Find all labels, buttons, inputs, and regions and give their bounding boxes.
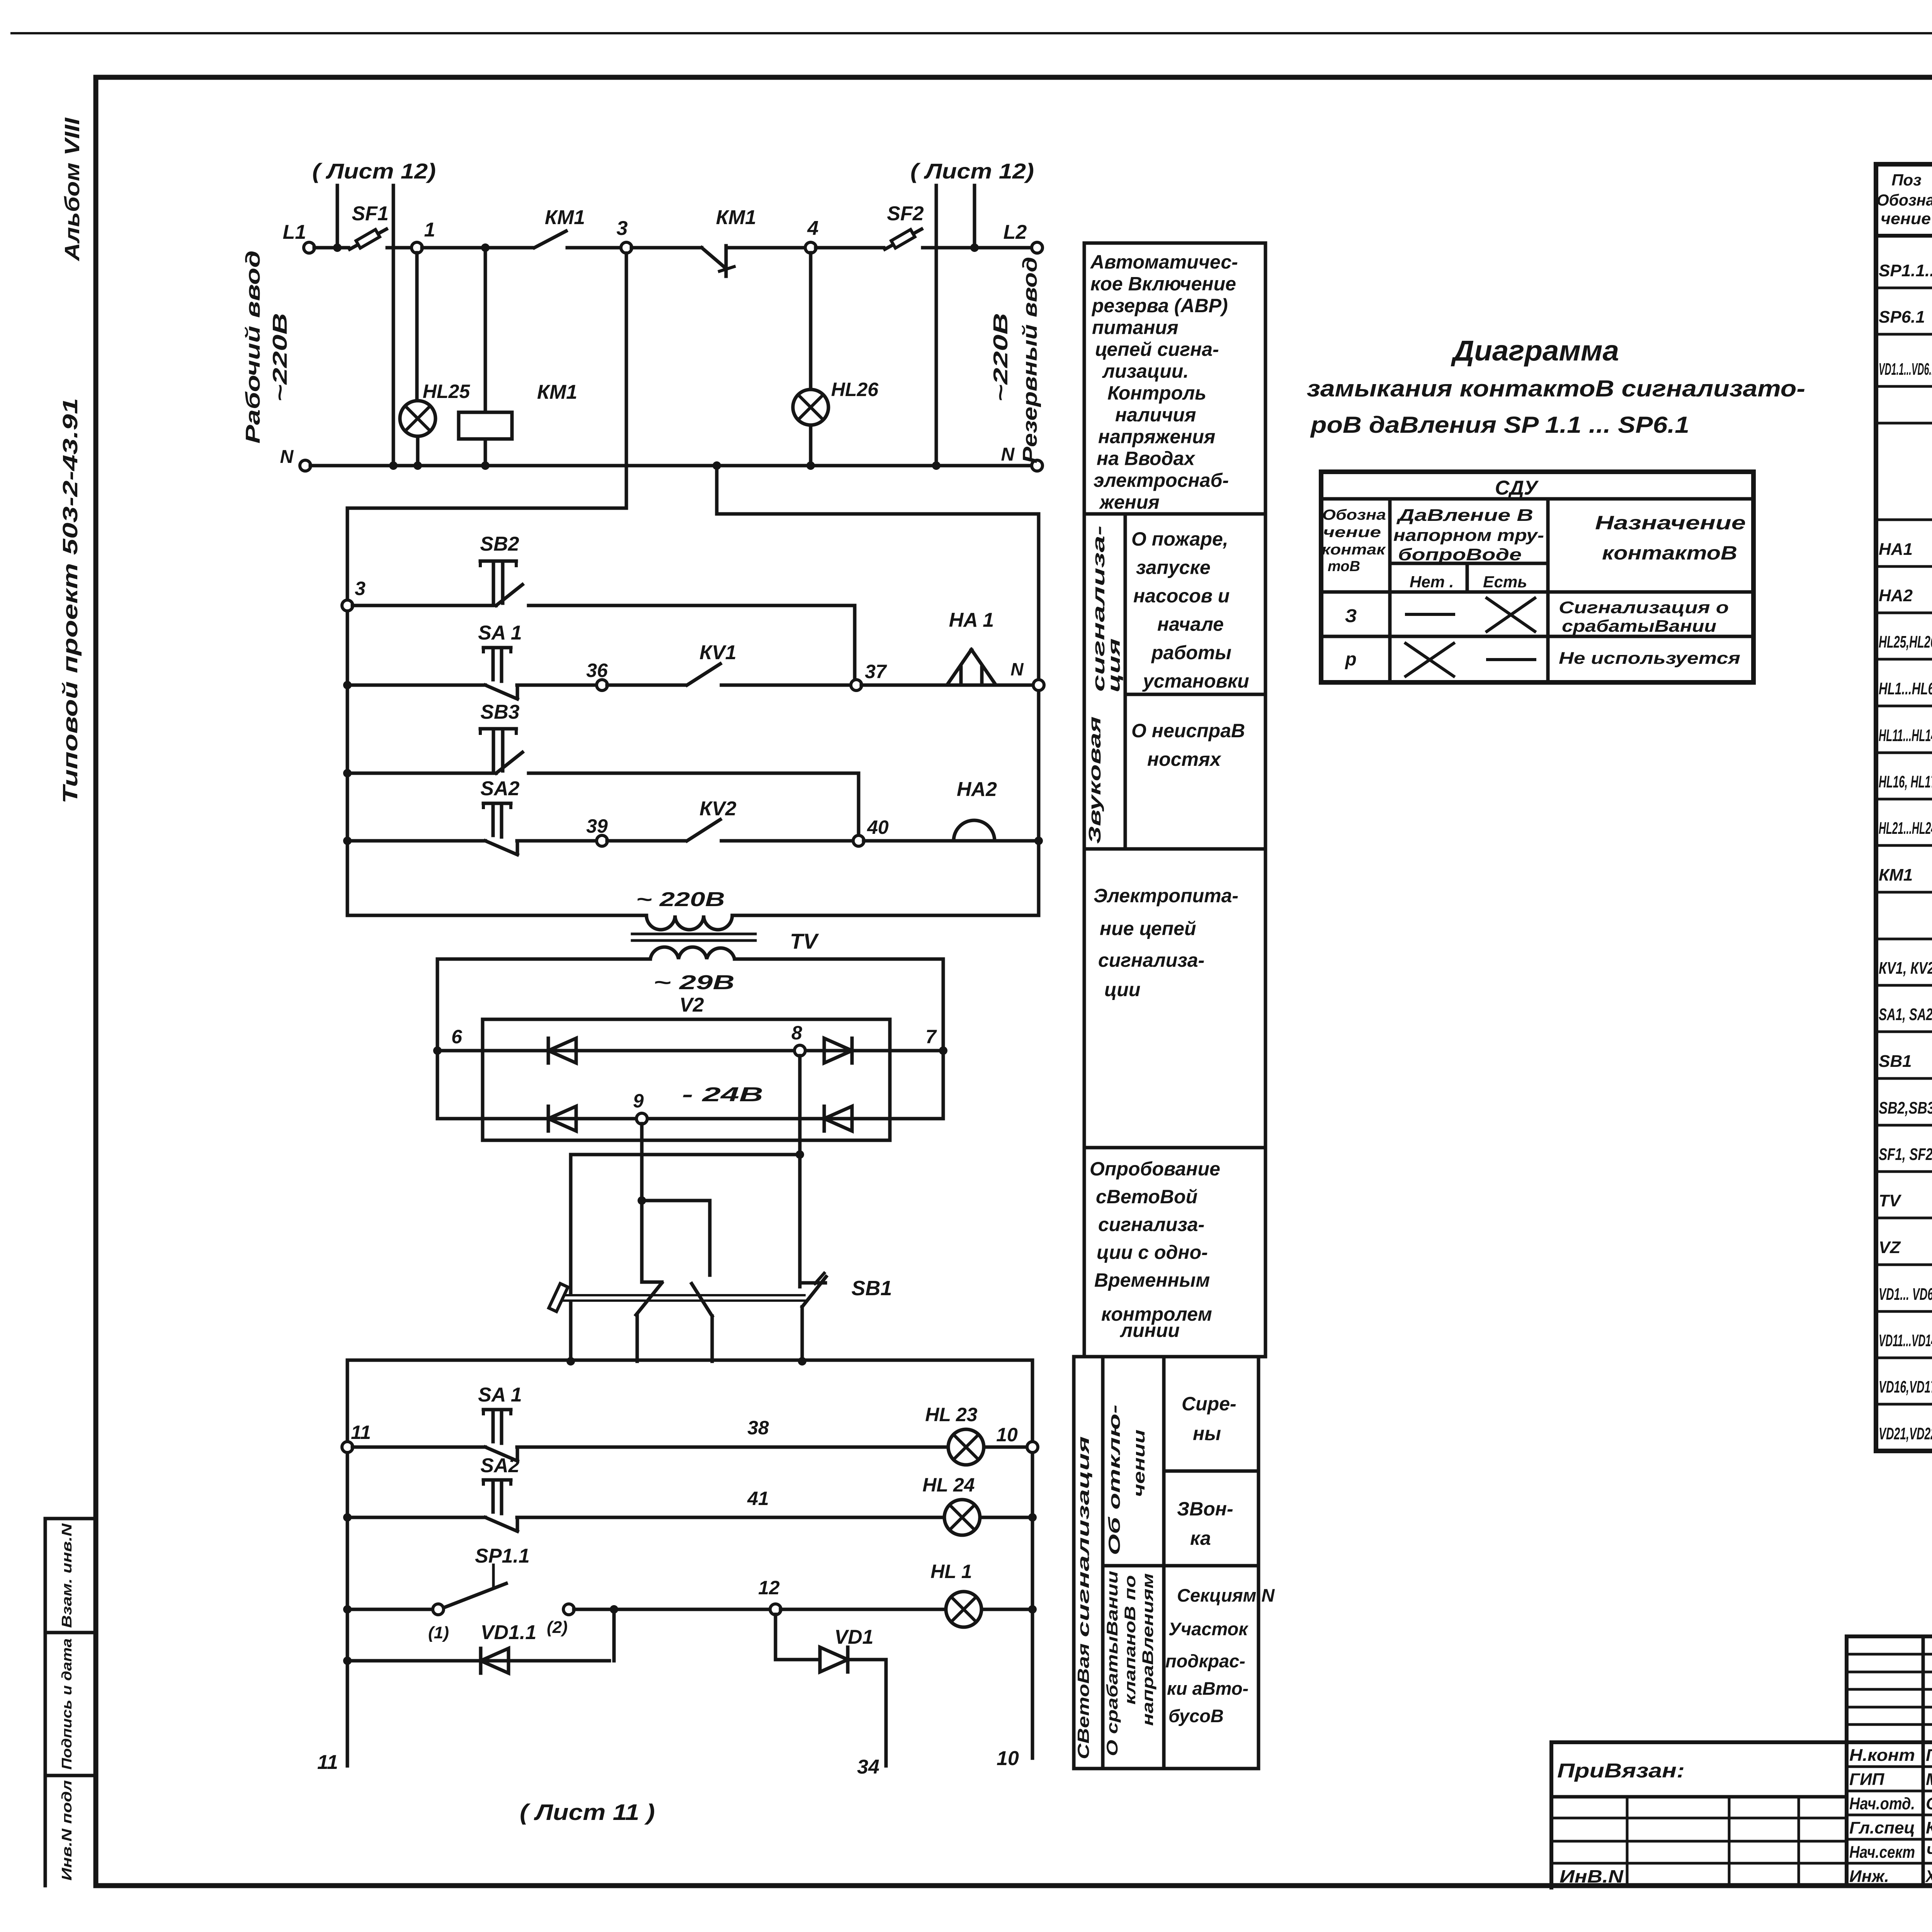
svg-text:N: N bbox=[1001, 444, 1015, 465]
wire node 8 down bbox=[798, 1056, 802, 1287]
function box Электропитание bbox=[1084, 849, 1265, 1148]
svg-text:Сире-: Сире- bbox=[1182, 1393, 1236, 1415]
contact KM1.2 (NC) bbox=[702, 248, 726, 268]
wire -24V branch bbox=[571, 1153, 800, 1156]
svg-text:ДаВление В: ДаВление В bbox=[1396, 506, 1533, 525]
diode V2.3 bbox=[547, 1106, 550, 1131]
svg-text:срабатыВании: срабатыВании bbox=[1562, 617, 1716, 636]
wire from sheet 12 to N bus bbox=[392, 185, 395, 466]
svg-text:бопроВоде: бопроВоде bbox=[1398, 545, 1522, 564]
svg-text:напраВлениям: напраВлениям bbox=[1139, 1573, 1156, 1726]
svg-text:SA 1: SA 1 bbox=[478, 622, 522, 644]
svg-text:N: N bbox=[280, 447, 294, 467]
svg-text:КV1, КV2: КV1, КV2 bbox=[1879, 959, 1932, 978]
siren HA1 bbox=[947, 650, 971, 684]
svg-text:VD1.1: VD1.1 bbox=[481, 1621, 537, 1644]
wire HL24 to right edge bbox=[980, 1516, 1027, 1519]
breaker SF2 bbox=[885, 229, 922, 249]
svg-text:SP1.1...: SP1.1... bbox=[1879, 261, 1932, 280]
terminal N right bbox=[1032, 460, 1043, 471]
svg-text:HL21...HL24: HL21...HL24 bbox=[1879, 819, 1932, 838]
svg-text:41: 41 bbox=[747, 1488, 769, 1509]
svg-text:SB3: SB3 bbox=[480, 701, 519, 723]
wire row SP1.1 bbox=[343, 1605, 352, 1614]
pushbutton SB1 button head bbox=[549, 1284, 568, 1312]
svg-text:HL 23: HL 23 bbox=[925, 1404, 977, 1425]
svg-text:ХашибашеВа: ХашибашеВа bbox=[1925, 1867, 1932, 1886]
diode VD1.1 branch bbox=[343, 1656, 352, 1665]
svg-text:ПриВязан:: ПриВязан: bbox=[1557, 1760, 1685, 1782]
svg-text:ТV: ТV bbox=[1879, 1191, 1902, 1210]
node 9 bbox=[636, 1113, 647, 1124]
svg-text:HL25: HL25 bbox=[423, 381, 470, 402]
svg-text:ИнВ.N: ИнВ.N bbox=[1560, 1866, 1624, 1886]
svg-text:4: 4 bbox=[807, 217, 819, 240]
svg-text:SA2: SA2 bbox=[480, 777, 519, 800]
svg-text:сВетоВой: сВетоВой bbox=[1096, 1186, 1197, 1207]
svg-text:11: 11 bbox=[317, 1751, 338, 1774]
switch SA1 lower bbox=[483, 1408, 511, 1412]
svg-text:контак: контак bbox=[1321, 542, 1386, 558]
pushbutton SB1 pole 1 bbox=[569, 1303, 573, 1361]
svg-text:НА2: НА2 bbox=[957, 778, 997, 801]
svg-text:чении: чении bbox=[1130, 1430, 1148, 1497]
svg-text:Альбом VIII: Альбом VIII bbox=[61, 117, 84, 262]
svg-text:ка: ка bbox=[1190, 1527, 1211, 1549]
wire node 40 to HA2 bbox=[864, 839, 1034, 843]
wire from sheet 12 right to N bus bbox=[935, 185, 938, 466]
node 3 on signal box bbox=[342, 600, 353, 611]
svg-text:8: 8 bbox=[791, 1022, 802, 1044]
svg-text:Не используется: Не используется bbox=[1559, 649, 1740, 668]
svg-text:SB2: SB2 bbox=[480, 533, 519, 555]
node 8 bbox=[794, 1045, 805, 1056]
node 37 bbox=[851, 680, 862, 690]
svg-text:СВетоВая: СВетоВая bbox=[1074, 1643, 1092, 1759]
node 3 bbox=[621, 242, 632, 253]
pushbutton SB1 pole B bbox=[692, 1284, 712, 1316]
lamp HL25 branch wire bbox=[415, 253, 419, 401]
wire N bus down to signal box bbox=[715, 466, 719, 514]
svg-text:ки аВто-: ки аВто- bbox=[1167, 1678, 1248, 1699]
svg-text:Участок: Участок bbox=[1168, 1619, 1248, 1639]
svg-text:лизации.: лизации. bbox=[1102, 361, 1189, 382]
Привязан box bbox=[1549, 1742, 1553, 1888]
svg-text:SB1: SB1 bbox=[1879, 1052, 1912, 1071]
svg-text:Гецко: Гецко bbox=[1926, 1746, 1932, 1765]
svg-text:37: 37 bbox=[865, 661, 887, 682]
svg-text:ние цепей: ние цепей bbox=[1100, 918, 1196, 939]
title block top edge bbox=[1847, 1634, 1932, 1638]
wire row SA2 lower bbox=[343, 1513, 352, 1522]
svg-text:ции: ции bbox=[1104, 979, 1140, 1000]
node 4 bbox=[805, 242, 816, 253]
svg-text:40: 40 bbox=[867, 816, 889, 838]
svg-text:ГИП: ГИП bbox=[1849, 1770, 1885, 1789]
svg-text:3: 3 bbox=[617, 217, 628, 240]
svg-text:О неиспраВ: О неиспраВ bbox=[1131, 720, 1245, 742]
lamp HL1 bbox=[946, 1592, 981, 1627]
function box signalling bbox=[1084, 514, 1265, 849]
rectifier V2 box bbox=[483, 1019, 890, 1140]
svg-text:Опробование: Опробование bbox=[1090, 1158, 1220, 1180]
name table columns bbox=[1845, 1636, 1849, 1886]
svg-text:ностях: ностях bbox=[1147, 748, 1221, 770]
svg-text:КлимоВ: КлимоВ bbox=[1926, 1818, 1932, 1837]
svg-text:клапаноВ по: клапаноВ по bbox=[1122, 1575, 1139, 1705]
svg-text:Обозна: Обозна bbox=[1322, 507, 1386, 523]
breaker SF1 bbox=[350, 229, 386, 249]
svg-text:HL26: HL26 bbox=[831, 379, 879, 400]
svg-text:бусоВ: бусоВ bbox=[1168, 1706, 1224, 1726]
sidebar stamp boxes bbox=[44, 1519, 47, 1886]
wire from sheet 12 right to L1 row bbox=[973, 185, 976, 248]
name table rows bbox=[1847, 1765, 1932, 1768]
svg-text:Поз: Поз bbox=[1891, 171, 1921, 189]
svg-text:О срабатыВании: О срабатыВании bbox=[1104, 1571, 1121, 1756]
wire row SA2 bbox=[343, 837, 352, 845]
svg-text:HA 1: HA 1 bbox=[949, 609, 994, 631]
svg-text:Рабочий ввод: Рабочий ввод bbox=[242, 250, 264, 444]
svg-text:VZ: VZ bbox=[1879, 1238, 1901, 1257]
svg-text:чение: чение bbox=[1881, 209, 1931, 228]
svg-text:Временным: Временным bbox=[1094, 1269, 1210, 1291]
svg-text:Диаграмма: Диаграмма bbox=[1451, 335, 1619, 367]
svg-text:наличия: наличия bbox=[1115, 404, 1196, 426]
bell HA2 bbox=[954, 820, 995, 841]
wire row SA1 bbox=[343, 681, 352, 689]
svg-text:работы: работы bbox=[1151, 642, 1231, 663]
svg-text:линии: линии bbox=[1120, 1320, 1180, 1341]
svg-text:тоВ: тоВ bbox=[1328, 558, 1360, 575]
wire node 3 to KM1.2 bbox=[631, 246, 702, 250]
svg-text:ция: ция bbox=[1105, 638, 1124, 692]
wire SF2 to L2 bbox=[923, 246, 1032, 250]
svg-text:Резервный ввод: Резервный ввод bbox=[1019, 257, 1041, 464]
svg-text:Обозна: Обозна bbox=[1877, 191, 1932, 209]
svg-text:кое Включение: кое Включение bbox=[1090, 273, 1236, 295]
svg-text:контактоВ: контактоВ bbox=[1602, 542, 1737, 564]
svg-text:~220В: ~220В bbox=[269, 313, 291, 402]
wire SB3 to node 40 corner bbox=[529, 772, 859, 775]
svg-text:р: р bbox=[1344, 649, 1356, 670]
svg-text:3: 3 bbox=[355, 578, 366, 599]
wire node 36 to KV1 bbox=[607, 684, 686, 687]
wire SF1 to node 1 bbox=[387, 246, 412, 250]
svg-text:КV1: КV1 bbox=[699, 641, 736, 664]
svg-text:Контроль: Контроль bbox=[1107, 382, 1206, 404]
svg-text:SP6.1: SP6.1 bbox=[1879, 308, 1925, 327]
Привязан grid bbox=[1551, 1817, 1847, 1820]
wire L1 to SF1 bbox=[314, 246, 349, 250]
svg-text:38: 38 bbox=[747, 1417, 769, 1439]
svg-text:Автоматичес-: Автоматичес- bbox=[1090, 251, 1238, 273]
svg-text:З: З bbox=[1345, 606, 1357, 626]
switch SA1 bbox=[483, 646, 511, 650]
svg-text:V2: V2 bbox=[679, 994, 704, 1016]
svg-text:сигнализа-: сигнализа- bbox=[1098, 949, 1204, 971]
svg-text:Нач.отд.: Нач.отд. bbox=[1849, 1794, 1915, 1813]
svg-text:( Лист 11 ): ( Лист 11 ) bbox=[520, 1800, 655, 1825]
svg-text:подкрас-: подкрас- bbox=[1165, 1651, 1245, 1671]
svg-text:VD11...VD14: VD11...VD14 bbox=[1879, 1331, 1932, 1350]
wire row SB3 bbox=[343, 769, 352, 777]
svg-text:установки: установки bbox=[1142, 670, 1249, 692]
svg-text:СДУ: СДУ bbox=[1495, 477, 1539, 499]
node 1 bbox=[412, 242, 422, 253]
lamp HL26 branch wire bbox=[809, 253, 813, 389]
svg-text:(1): (1) bbox=[428, 1623, 449, 1642]
svg-text:SF1, SF2: SF1, SF2 bbox=[1879, 1145, 1932, 1164]
svg-text:36: 36 bbox=[586, 660, 608, 681]
diode V2.4 bbox=[823, 1106, 826, 1131]
svg-text:питания: питания bbox=[1092, 317, 1179, 338]
svg-text:роВ даВления SP 1.1 ...: роВ даВления SP 1.1 ... SP6.1 bbox=[1310, 412, 1689, 438]
wire row SA1 lower bbox=[352, 1446, 485, 1449]
svg-text:~220В: ~220В bbox=[990, 313, 1012, 402]
transformer TV primary winding bbox=[646, 915, 732, 930]
lamp HL24 bbox=[944, 1500, 980, 1535]
wire 29V loop bbox=[437, 957, 650, 961]
svg-text:SB2,SB3: SB2,SB3 bbox=[1879, 1099, 1932, 1117]
svg-text:HL 24: HL 24 bbox=[922, 1474, 975, 1496]
svg-text:SF2: SF2 bbox=[887, 202, 923, 225]
wire node 1 to KM1 contact bbox=[422, 246, 533, 250]
lamp HL25 bbox=[400, 401, 435, 436]
svg-text:Подпись и дата: Подпись и дата bbox=[59, 1638, 75, 1770]
svg-text:VD21,VD22: VD21,VD22 bbox=[1879, 1424, 1932, 1443]
wire HL23 to node 10 bbox=[984, 1446, 1027, 1449]
svg-text:12: 12 bbox=[758, 1577, 780, 1599]
wire node 9 down bbox=[640, 1124, 644, 1282]
table СДУ bbox=[1321, 472, 1753, 682]
transformer TV secondary winding bbox=[650, 947, 735, 959]
wire node 3 down to signal box bbox=[625, 253, 628, 508]
svg-text:HL 1: HL 1 bbox=[930, 1561, 972, 1582]
svg-text:34: 34 bbox=[857, 1756, 879, 1778]
svg-text:НА2: НА2 bbox=[1879, 586, 1913, 605]
pushbutton SB1 pole C bbox=[800, 1281, 825, 1285]
svg-text:1: 1 bbox=[424, 219, 435, 241]
svg-text:VD16,VD17: VD16,VD17 bbox=[1879, 1378, 1932, 1396]
svg-text:ЗВон-: ЗВон- bbox=[1177, 1498, 1233, 1520]
svg-text:SB1: SB1 bbox=[851, 1277, 892, 1300]
signal box outline bbox=[347, 507, 626, 510]
terminal L2 bbox=[1032, 242, 1043, 253]
svg-text:11: 11 bbox=[351, 1422, 371, 1443]
pushbutton SB1 pole A bbox=[642, 1281, 662, 1284]
svg-text:Об отклю-: Об отклю- bbox=[1105, 1405, 1123, 1555]
svg-text:N: N bbox=[1010, 659, 1024, 679]
node 11 bbox=[342, 1442, 353, 1452]
lamp HL26 bbox=[793, 389, 828, 425]
wire node 37 to HA1 bbox=[861, 684, 1034, 687]
sheet top edge line bbox=[12, 32, 1932, 34]
svg-text:резерва (АВР): резерва (АВР) bbox=[1091, 295, 1228, 316]
node 39 bbox=[597, 835, 607, 846]
svg-text:( Лист 12): ( Лист 12) bbox=[910, 159, 1034, 183]
svg-text:Нет .: Нет . bbox=[1410, 573, 1454, 591]
contact KM1.1 (NO) bbox=[534, 231, 566, 248]
lower box outline bbox=[347, 1359, 1032, 1362]
diode V2.2 bbox=[850, 1038, 854, 1063]
svg-text:SF1: SF1 bbox=[352, 202, 388, 225]
wire N bus bbox=[310, 464, 1032, 468]
svg-text:L2: L2 bbox=[1003, 221, 1027, 243]
svg-text:TV: TV bbox=[790, 929, 819, 953]
contactor coil KM1 bbox=[484, 252, 487, 412]
wire from sheet 12 to L1 bus bbox=[336, 185, 339, 248]
svg-text:Звуковая: Звуковая bbox=[1085, 716, 1104, 844]
svg-text:Сигнализация о: Сигнализация о bbox=[1559, 598, 1729, 617]
wire 38 bbox=[517, 1446, 948, 1449]
svg-text:напряжения: напряжения bbox=[1098, 426, 1215, 447]
wire SA2 to node 39 bbox=[517, 839, 597, 843]
svg-text:КV2: КV2 bbox=[699, 798, 736, 820]
transformer TV core bbox=[632, 933, 755, 935]
relay contact KV2 bbox=[687, 820, 720, 841]
svg-text:КМ1: КМ1 bbox=[716, 206, 756, 229]
svg-text:SA1, SA2: SA1, SA2 bbox=[1879, 1005, 1932, 1024]
svg-text:сигнализа-: сигнализа- bbox=[1098, 1214, 1204, 1235]
terminal N left bbox=[300, 460, 311, 471]
svg-text:КМ1: КМ1 bbox=[545, 206, 585, 229]
svg-text:HL11...HL14: HL11...HL14 bbox=[1879, 726, 1932, 745]
svg-text:Взам. инв.N: Взам. инв.N bbox=[59, 1523, 75, 1628]
diode V2.1 bbox=[547, 1038, 550, 1063]
title block line 4509 bbox=[1551, 1740, 1932, 1744]
svg-text:VD1... VD6,: VD1... VD6, bbox=[1879, 1285, 1932, 1304]
node 12 bbox=[770, 1604, 781, 1615]
svg-text:Назначение: Назначение bbox=[1595, 512, 1746, 534]
wire row SB2 bbox=[352, 604, 496, 607]
name table upper rows bbox=[1847, 1653, 1932, 1656]
svg-text:Гл.спец: Гл.спец bbox=[1849, 1818, 1915, 1837]
pushbutton SB2 bbox=[480, 560, 516, 563]
svg-text:насосов и: насосов и bbox=[1133, 585, 1230, 607]
node 10 bbox=[1027, 1442, 1038, 1452]
wire upper bridge row bbox=[437, 1049, 943, 1053]
svg-text:Секциям N: Секциям N bbox=[1177, 1585, 1275, 1605]
svg-text:жения: жения bbox=[1099, 492, 1160, 513]
svg-text:Нач.сект: Нач.сект bbox=[1849, 1843, 1915, 1862]
svg-text:10: 10 bbox=[996, 1424, 1018, 1446]
svg-text:HL25,HL26: HL25,HL26 bbox=[1879, 633, 1932, 651]
svg-text:ции с одно-: ции с одно- bbox=[1097, 1242, 1208, 1263]
svg-text:- 24В: - 24В bbox=[682, 1083, 763, 1106]
svg-text:SP1.1: SP1.1 bbox=[475, 1545, 530, 1567]
svg-text:6: 6 bbox=[451, 1026, 463, 1048]
svg-text:Типовой проект 503-2-43.91: Типовой проект 503-2-43.91 bbox=[59, 398, 82, 804]
svg-text:КМ1: КМ1 bbox=[537, 381, 577, 403]
svg-text:электроснаб-: электроснаб- bbox=[1094, 469, 1229, 491]
svg-text:начале: начале bbox=[1157, 614, 1224, 635]
svg-text:О пожаре,: О пожаре, bbox=[1131, 528, 1228, 550]
svg-text:HL16, HL17: HL16, HL17 bbox=[1879, 772, 1932, 791]
svg-text:запуске: запуске bbox=[1136, 557, 1211, 578]
node 36 bbox=[597, 680, 607, 690]
svg-text:Инв.N подл: Инв.N подл bbox=[59, 1780, 75, 1881]
svg-text:L1: L1 bbox=[283, 221, 306, 243]
svg-text:Инж.: Инж. bbox=[1849, 1867, 1889, 1886]
diode VD1 branch bbox=[774, 1614, 777, 1660]
wire SB2 to node 37 corner bbox=[529, 604, 855, 607]
node 40 bbox=[853, 835, 864, 846]
switch SA2 bbox=[483, 802, 511, 805]
svg-text:~ 29В: ~ 29В bbox=[653, 971, 735, 994]
svg-text:ны: ны bbox=[1193, 1423, 1221, 1444]
function box Световая сигнализация bbox=[1074, 1357, 1259, 1769]
function box Опробование bbox=[1084, 1148, 1265, 1357]
svg-text:ОсоВский: ОсоВский bbox=[1926, 1794, 1932, 1813]
wire KV2 to node 40 bbox=[721, 839, 854, 843]
svg-text:Н.конт: Н.конт bbox=[1849, 1746, 1915, 1765]
component table grid bbox=[1876, 164, 1932, 1451]
svg-text:10: 10 bbox=[997, 1747, 1019, 1770]
svg-text:на Вводах: на Вводах bbox=[1097, 448, 1196, 469]
pushbutton SB3 bbox=[480, 727, 516, 731]
wire HL1 to right edge bbox=[981, 1608, 1027, 1611]
pressure switch SP1.1 bbox=[433, 1604, 444, 1615]
node 6 bbox=[433, 1046, 442, 1055]
svg-text:( Лист 12): ( Лист 12) bbox=[312, 159, 436, 183]
svg-text:Меленчук: Меленчук bbox=[1926, 1770, 1932, 1789]
wire KV1 to node 37 bbox=[721, 684, 851, 687]
svg-text:замыкания контактоВ сигнализ: замыкания контактоВ сигнализато- bbox=[1307, 376, 1805, 401]
svg-text:цепей сигна-: цепей сигна- bbox=[1095, 338, 1219, 360]
function box АВР bbox=[1084, 243, 1265, 514]
svg-text:КМ1: КМ1 bbox=[1879, 866, 1913, 884]
svg-text:~ 220В: ~ 220В bbox=[636, 888, 725, 911]
lamp HL23 bbox=[948, 1429, 984, 1465]
pushbutton SB1 mechanical bar bbox=[562, 1294, 804, 1296]
svg-text:чение: чение bbox=[1323, 524, 1381, 541]
wire SA1 to node 36 bbox=[517, 684, 597, 687]
svg-text:Черепахина: Черепахина bbox=[1926, 1843, 1932, 1862]
svg-text:SA2: SA2 bbox=[480, 1454, 519, 1477]
svg-text:9: 9 bbox=[633, 1090, 644, 1112]
svg-text:Есть: Есть bbox=[1483, 573, 1527, 591]
wire node 39 to KV2 bbox=[607, 839, 686, 843]
svg-text:7: 7 bbox=[925, 1026, 937, 1048]
svg-text:напорном тру-: напорном тру- bbox=[1393, 526, 1544, 545]
relay contact KV1 bbox=[687, 664, 720, 685]
svg-text:VD1: VD1 bbox=[834, 1626, 873, 1648]
wire KM1.1 to node 3 bbox=[567, 246, 621, 250]
node 7 bbox=[939, 1046, 947, 1055]
svg-text:сигнализация: сигнализация bbox=[1074, 1436, 1092, 1637]
svg-text:HL1...HL6: HL1...HL6 bbox=[1879, 679, 1932, 698]
wire 41 bbox=[517, 1516, 944, 1519]
wire KM1.2 to node 4 bbox=[726, 246, 806, 250]
svg-text:Электропита-: Электропита- bbox=[1094, 885, 1238, 906]
wire lower bridge row bbox=[437, 1117, 943, 1121]
switch SA2 lower bbox=[483, 1478, 511, 1482]
svg-text:SA 1: SA 1 bbox=[478, 1384, 522, 1406]
wire node 12 to HL1 bbox=[781, 1608, 946, 1611]
wire node 4 to SF2 bbox=[816, 246, 884, 250]
wire SP1.1 to node 12 bbox=[574, 1608, 770, 1611]
svg-text:(2): (2) bbox=[547, 1618, 568, 1637]
svg-text:39: 39 bbox=[586, 815, 608, 837]
svg-text:VD1.1...VD6.1: VD1.1...VD6.1 bbox=[1879, 360, 1932, 379]
svg-text:НА1: НА1 bbox=[1879, 540, 1913, 559]
wire node 9 branch to pole B bbox=[642, 1199, 710, 1202]
